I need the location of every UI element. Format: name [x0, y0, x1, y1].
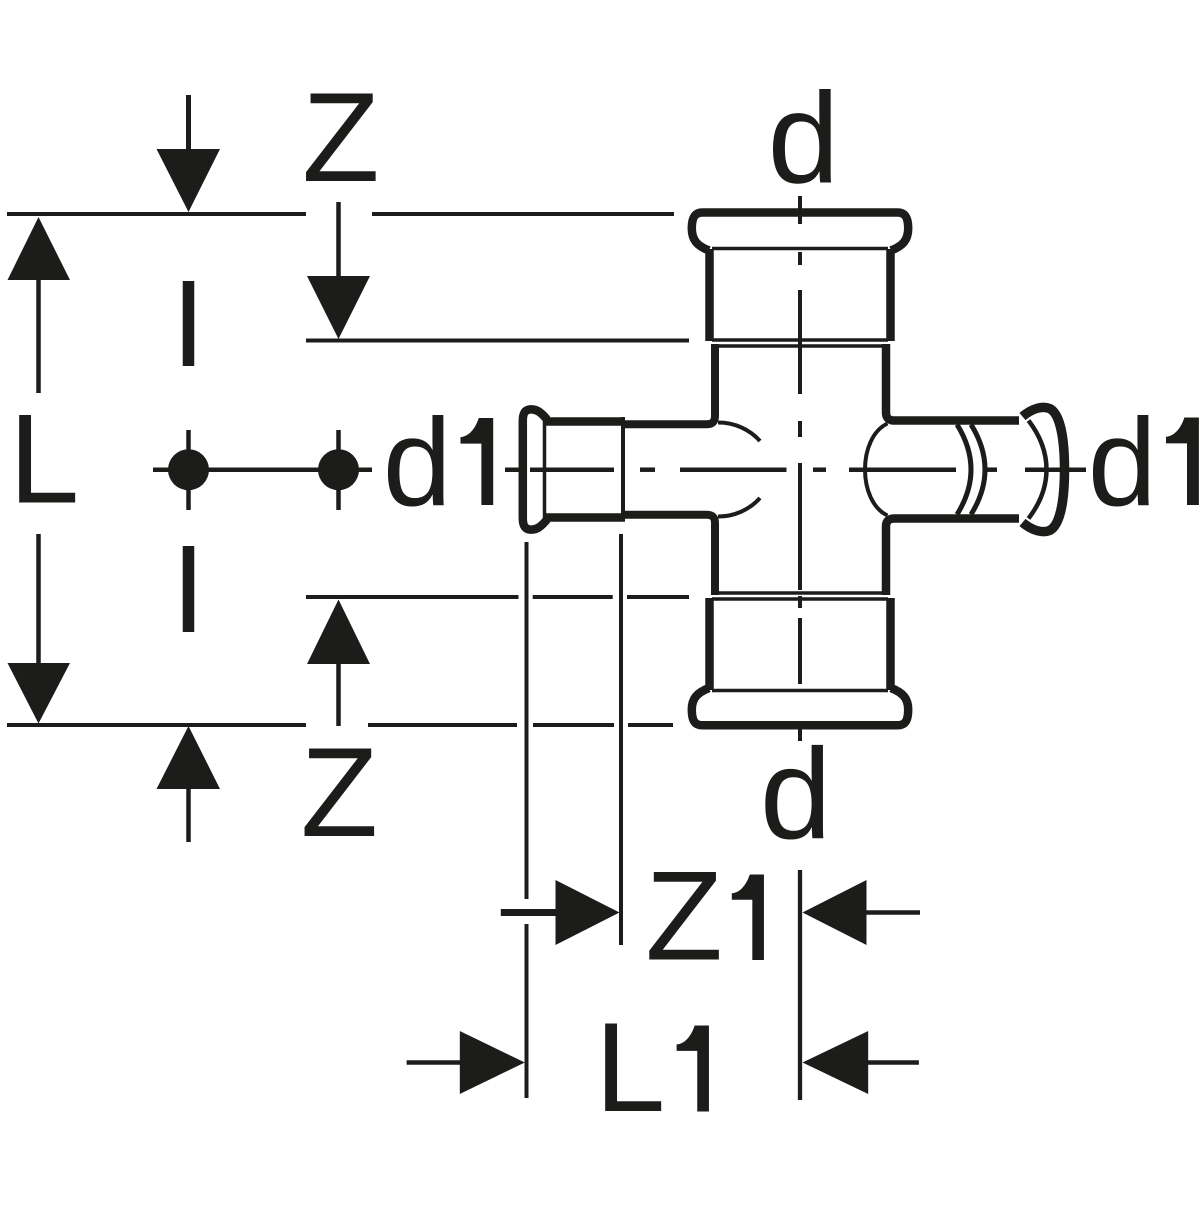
node dot 2 [318, 449, 359, 490]
arrow L bottom (down, at x=38.5, tip on line D) [8, 534, 71, 724]
label d1 left [383, 394, 494, 532]
fitting left arm socket top wall [545, 417, 625, 426]
fitting right press lip [1023, 407, 1065, 531]
fitting body outer contour top-right [886, 344, 1019, 421]
extension line x=621 (left socket depth) [619, 534, 623, 945]
fitting bottom socket lip inner line [712, 689, 888, 693]
svg-text:Z: Z [301, 721, 379, 863]
fitting top socket walls [710, 249, 891, 341]
arrow Z bottom depth (up, at x=338.5, tip under line C) [307, 600, 370, 727]
arrow Z depth (down, at x=338.5, tip on line B) [307, 202, 370, 339]
fitting left press lip inner line [543, 419, 547, 518]
fitting right socket step curve 2 [971, 425, 985, 515]
tick vertical through node dot 2 at x=338.5 [336, 430, 341, 510]
label d1 right [1088, 394, 1199, 532]
fitting right press lip inner arc [1029, 421, 1047, 519]
svg-text:d: d [760, 722, 832, 866]
dimension line C (bottom socket depth, y=597) [306, 595, 689, 599]
svg-text:L: L [595, 996, 666, 1138]
fitting body outer contour bottom-left [621, 515, 715, 595]
extension line x=527 (left socket mouth) [525, 542, 529, 1098]
arrow Z1 left (right-pointing, tip at x=620) [501, 880, 620, 945]
fitting junction fillet arc bottom-left [718, 498, 760, 517]
dimension line D (bottom end of fitting, y=725) [7, 723, 673, 727]
fitting bottom socket walls [710, 598, 891, 690]
fitting bottom socket step lines [712, 593, 888, 599]
arrow L top (up, at x=38.5, tip under line A) [8, 217, 71, 393]
svg-text:d: d [383, 394, 452, 532]
label L1 [595, 996, 709, 1138]
extension line x=800 (fitting axis) [798, 870, 802, 1100]
arrow L1 left (right-pointing, tip at x=525) [407, 1031, 525, 1094]
fitting junction fillet arc top-left [718, 422, 760, 441]
dimension line B (top socket depth, y=340.5) [306, 339, 689, 343]
horizontal axis line through dots y=469.7 [153, 467, 372, 472]
svg-text:L: L [9, 388, 80, 530]
arrow Z bottom (up, at x=188.5, tip under line D) [157, 726, 221, 842]
svg-text:Z: Z [645, 845, 723, 987]
fitting body outer contour top-left [621, 344, 715, 424]
arrow Z top (down, at x=188.5, tip on line A) [157, 95, 221, 212]
fitting left press lip [523, 409, 547, 529]
svg-text:d: d [768, 67, 840, 211]
arrow L1 right (left-pointing, tip at x=802.5) [803, 1031, 919, 1094]
svg-text:d: d [1088, 394, 1157, 532]
svg-text:Z: Z [302, 66, 380, 208]
fitting right socket step curve 1 [957, 425, 971, 515]
fitting bottom socket lip [692, 688, 908, 725]
fitting body outer contour bottom-right [886, 519, 1019, 596]
centerline vertical dash-dot at x=188.5 (left reference axis) [183, 281, 195, 632]
node dot 1 [168, 449, 209, 490]
label Z1 [645, 845, 764, 987]
fitting top socket lip (press end bead) [692, 213, 908, 251]
fitting right socket dome arc [865, 424, 888, 516]
horizontal centerline of fitting y=469.7 (dash-dot) [505, 467, 1086, 472]
dimension line A (top end of fitting, y=214) [7, 212, 674, 216]
fitting top socket step lines [712, 340, 888, 346]
vertical centerline of fitting x=800 (dash-dot) [798, 196, 802, 741]
fitting top socket lip inner line [712, 247, 888, 251]
fitting left socket step line [621, 417, 625, 520]
fitting left arm socket bottom wall [545, 513, 625, 522]
arrow Z1 right (left-pointing, tip at x=802) [803, 880, 921, 945]
